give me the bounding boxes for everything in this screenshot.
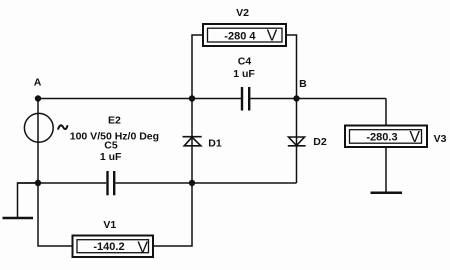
node source bottom [35, 180, 41, 186]
capacitor C5 [108, 171, 115, 195]
wire V1 right leg [153, 183, 192, 246]
ground left [3, 183, 39, 218]
svg-text:V: V [409, 129, 420, 146]
svg-text:V1: V1 [103, 219, 116, 231]
node A [35, 95, 41, 101]
source E2 [24, 113, 67, 142]
svg-text:-280 4: -280 4 [224, 31, 256, 43]
voltmeter V3 [345, 126, 427, 148]
svg-text:C5: C5 [104, 140, 118, 152]
svg-text:V: V [137, 240, 148, 257]
voltmeter V1 [73, 236, 154, 258]
node D1 bottom [189, 180, 195, 186]
svg-text:D2: D2 [313, 136, 327, 148]
voltmeter V2 [203, 24, 286, 46]
svg-text:C4: C4 [238, 55, 252, 67]
diode D2 [288, 137, 306, 146]
svg-text:1 uF: 1 uF [100, 151, 122, 163]
svg-text:A: A [34, 76, 42, 88]
svg-text:D1: D1 [208, 138, 222, 150]
wire top rail A to C4 [38, 98, 241, 100]
svg-text:1 uF: 1 uF [233, 68, 255, 80]
wire bottom rail left of C5 [18, 182, 107, 184]
svg-text:V: V [267, 28, 278, 45]
svg-text:V3: V3 [434, 133, 447, 145]
node B [293, 95, 299, 101]
wire bottom rail right of C5 [116, 182, 297, 184]
svg-text:B: B [299, 78, 307, 90]
wire D1 column [191, 99, 193, 184]
svg-text:-140.2: -140.2 [93, 241, 124, 253]
svg-text:V2: V2 [236, 7, 249, 19]
capacitor C4 [242, 87, 249, 111]
wire D2 column [296, 99, 298, 184]
wire V2 left leg [192, 35, 203, 99]
svg-text:-280.3: -280.3 [366, 131, 397, 143]
diode D1 [183, 137, 202, 146]
wire V1 left leg [38, 183, 73, 246]
node D1 top [189, 95, 195, 101]
wire V2 right leg [286, 35, 297, 99]
ground right [371, 147, 403, 193]
wire C4 to B to V3 corner [250, 98, 386, 100]
wire V3 top leg [385, 99, 387, 127]
svg-text:E2: E2 [108, 114, 121, 126]
wire source column [37, 99, 39, 184]
